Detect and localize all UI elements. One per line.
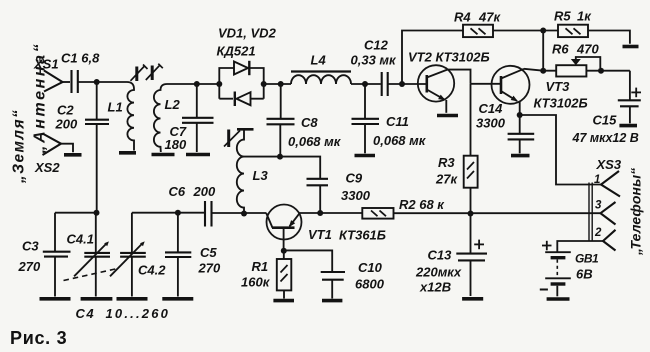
wire C2 branch	[96, 82, 98, 119]
wire	[212, 212, 267, 214]
diode VD2	[235, 92, 251, 107]
ground (XS2)	[64, 153, 82, 157]
svg-text:C14: C14	[479, 101, 504, 116]
svg-text:27к: 27к	[435, 172, 458, 187]
svg-text:L1: L1	[108, 100, 123, 115]
wire	[351, 83, 381, 85]
ground (C13)	[462, 297, 483, 301]
ground (GB1)	[547, 297, 570, 301]
node C9 bottom	[317, 210, 323, 216]
svg-text:XS2: XS2	[34, 160, 60, 175]
capacitor C4.1	[84, 213, 110, 297]
svg-text:200: 200	[193, 184, 216, 199]
svg-text:C13: C13	[428, 248, 453, 263]
transistor VT2	[418, 65, 471, 113]
capacitor C8	[267, 84, 295, 157]
ground (C3)	[40, 297, 71, 301]
resistor R4	[463, 25, 493, 37]
node C7	[194, 81, 200, 87]
ground (C11)	[355, 154, 376, 158]
svg-text:C12: C12	[364, 38, 389, 53]
wire	[300, 212, 363, 214]
transistor VT3	[492, 66, 544, 115]
plus (C15)	[631, 88, 641, 98]
capacitor C12	[382, 72, 388, 96]
svg-text:КД521: КД521	[217, 44, 256, 59]
ground (C15)	[619, 124, 637, 128]
ground (L1)	[119, 151, 136, 155]
node C8	[278, 81, 284, 87]
plus (C13)	[474, 240, 484, 250]
svg-text:C6: C6	[169, 184, 186, 199]
resistor R6	[543, 65, 630, 76]
svg-text:C11: C11	[386, 114, 409, 129]
socket XS1	[44, 71, 70, 92]
wire	[97, 81, 127, 83]
wire	[264, 83, 291, 85]
svg-text:2: 2	[594, 227, 602, 239]
resistor R2	[362, 208, 393, 219]
ground (R5)	[623, 45, 639, 49]
capacitor C10	[284, 250, 345, 298]
svg-text:VT1: VT1	[308, 227, 332, 242]
node VT3 collector/R6	[540, 68, 546, 74]
core bar L4	[291, 70, 351, 72]
contact pin 1	[601, 171, 620, 197]
ground (C14)	[511, 154, 530, 158]
svg-text:L2: L2	[165, 97, 181, 112]
node R4/R5	[540, 28, 546, 34]
svg-text:200: 200	[55, 117, 78, 132]
svg-text:VT3: VT3	[546, 79, 571, 94]
svg-text:GB1: GB1	[575, 252, 599, 266]
svg-text:0,33 мк: 0,33 мк	[351, 53, 398, 68]
svg-text:C9: C9	[346, 171, 363, 186]
capacitor C14	[508, 115, 535, 153]
svg-text:6800: 6800	[355, 277, 385, 292]
svg-text:R4: R4	[454, 10, 471, 25]
svg-text:220мкх: 220мкх	[415, 265, 462, 280]
svg-text:270: 270	[198, 261, 221, 276]
arrow (C4.2)	[110, 241, 145, 276]
svg-text:C1 6,8: C1 6,8	[61, 51, 100, 66]
wire (diode frame)	[219, 68, 263, 99]
wire	[493, 30, 558, 32]
svg-text:3300: 3300	[476, 116, 506, 131]
wire	[132, 212, 205, 214]
wire	[55, 212, 97, 214]
trimmer mark (L3)	[224, 130, 240, 148]
wire	[244, 157, 320, 178]
svg-text:1к: 1к	[577, 9, 592, 24]
capacitor C2	[85, 120, 109, 213]
arrow (C4.1)	[74, 241, 109, 276]
wire	[588, 31, 630, 44]
resistor R5	[558, 25, 588, 37]
capacitor C1	[72, 70, 78, 93]
svg-text:„Антенна“: „Антенна“	[32, 42, 49, 155]
capacitor C7	[182, 84, 214, 152]
svg-text:C4.2: C4.2	[138, 263, 166, 278]
capacitor C5	[165, 213, 191, 297]
trimmer mark (L1/L2 coupling)	[146, 64, 163, 80]
gang dashed link (C4)	[64, 269, 118, 281]
svg-text:R1: R1	[252, 259, 269, 274]
svg-text:47 мкх12 В: 47 мкх12 В	[572, 131, 639, 145]
svg-text:КТ361Б: КТ361Б	[339, 228, 386, 243]
wire	[78, 81, 97, 83]
ground (R1)	[273, 299, 294, 303]
svg-text:R6: R6	[552, 42, 569, 57]
node VT1 base bottom	[281, 248, 287, 254]
svg-text:VD1, VD2: VD1, VD2	[218, 26, 277, 41]
svg-text:R2 68 к: R2 68 к	[399, 197, 445, 212]
svg-text:47к: 47к	[478, 10, 501, 25]
contact pin 3	[601, 202, 616, 225]
svg-text:3: 3	[595, 200, 602, 212]
svg-text:C5: C5	[200, 245, 217, 260]
svg-text:C15: C15	[593, 113, 618, 128]
svg-text:270: 270	[18, 259, 41, 274]
node C5	[175, 210, 181, 216]
ground (C10)	[322, 299, 342, 303]
node L3 bottom	[241, 211, 247, 217]
wire	[394, 212, 601, 214]
svg-text:C3: C3	[22, 239, 39, 254]
svg-text:„Телефоны“: „Телефоны“	[628, 168, 644, 256]
resistor R1	[277, 251, 292, 299]
ground (C7)	[186, 153, 210, 157]
svg-text:6В: 6В	[576, 267, 593, 282]
plus (GB1)	[542, 241, 552, 251]
svg-text:„Земля“: „Земля“	[11, 109, 28, 184]
connector XS3 body	[589, 183, 592, 242]
node C2/C3/C4.1	[94, 210, 100, 216]
svg-text:C4: C4	[76, 306, 96, 321]
ground (L2)	[152, 153, 175, 157]
svg-text:10...260: 10...260	[106, 306, 171, 321]
wiper (R6)	[571, 57, 601, 68]
svg-text:L3: L3	[253, 168, 269, 183]
svg-text:C8: C8	[301, 115, 318, 130]
node diode right	[261, 81, 267, 87]
node diode left	[216, 81, 222, 87]
svg-text:XS3: XS3	[596, 157, 622, 172]
inductor L4	[291, 75, 351, 84]
inductor L1	[127, 82, 134, 151]
capacitor C9	[307, 179, 329, 213]
trimmer mark (L1/L2 coupling)	[131, 65, 148, 82]
ground (VT2 emitter)	[437, 114, 458, 118]
wire	[542, 31, 544, 71]
node L3 tap	[277, 154, 283, 160]
node R6 right	[598, 68, 604, 74]
svg-text:Рис. 3: Рис. 3	[10, 328, 67, 348]
svg-text:160к: 160к	[241, 275, 271, 290]
node VT2 base	[399, 81, 405, 87]
wire	[388, 83, 427, 85]
capacitor C4.2	[120, 213, 146, 297]
svg-text:0,068 мк: 0,068 мк	[288, 134, 342, 149]
ground (C5)	[162, 297, 193, 301]
wire	[471, 83, 502, 85]
wire	[167, 83, 219, 85]
node C11	[362, 81, 368, 87]
transistor VT1	[266, 205, 301, 251]
svg-text:R5: R5	[554, 9, 571, 24]
capacitor C13	[456, 214, 487, 297]
wire XS3 pin2 to GB1	[557, 241, 603, 252]
socket XS2	[43, 134, 74, 156]
svg-text:C10: C10	[358, 260, 383, 275]
svg-text:1: 1	[594, 174, 600, 186]
inductor L2	[154, 84, 167, 152]
capacitor C3	[43, 213, 71, 297]
capacitor C15	[618, 71, 641, 124]
ground (C4.2)	[117, 297, 148, 301]
svg-text:C4.1: C4.1	[67, 232, 94, 247]
svg-text:C2: C2	[57, 103, 74, 118]
core T-bar (L3)	[237, 128, 254, 131]
capacitor C6	[205, 201, 212, 227]
svg-text:3300: 3300	[341, 188, 371, 203]
minus (GB1)	[540, 289, 548, 291]
ground (C4.1)	[81, 297, 113, 301]
contact pin 2	[603, 230, 616, 251]
svg-text:470: 470	[576, 42, 599, 57]
diode VD1	[234, 61, 249, 75]
svg-text:VT2 КТ3102Б: VT2 КТ3102Б	[408, 50, 490, 65]
svg-text:L4: L4	[311, 53, 327, 68]
node R3/C13	[468, 211, 474, 217]
svg-text:х12В: х12В	[419, 280, 451, 295]
capacitor C11	[352, 84, 380, 153]
node VT3 emitter	[517, 112, 523, 118]
svg-text:0,068 мк: 0,068 мк	[373, 133, 427, 148]
svg-text:R3: R3	[438, 155, 455, 170]
battery GB1	[545, 252, 571, 296]
wire XS3 pin1	[520, 115, 601, 185]
resistor R3	[464, 84, 478, 214]
svg-text:КТ3102Б: КТ3102Б	[534, 96, 588, 111]
node C1/C2/L1	[94, 79, 100, 85]
inductor L3	[237, 129, 244, 213]
svg-text:180: 180	[165, 137, 187, 152]
wire R4 riser	[402, 31, 463, 85]
